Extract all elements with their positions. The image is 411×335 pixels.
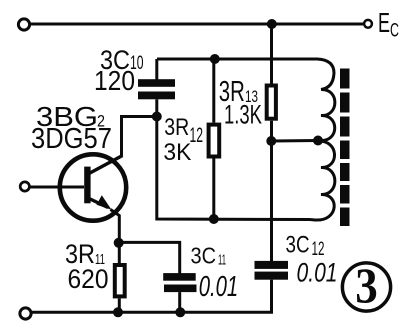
transformer core dash 1 (340, 69, 350, 89)
svg-text:3C: 3C (286, 232, 310, 259)
resistor R12 (209, 59, 220, 219)
svg-text:12: 12 (190, 124, 204, 147)
transistor base bar (84, 167, 90, 204)
wire: base (30, 186, 84, 189)
svg-text:E: E (378, 7, 390, 38)
junction: R11 ground (113, 307, 123, 317)
wire: top rail (31, 23, 364, 26)
transformer core dash 3 (340, 117, 350, 137)
svg-text:11: 11 (218, 252, 226, 269)
resistor R13 (267, 24, 276, 141)
resistor R11 (115, 243, 125, 312)
wire: emitter down (111, 210, 120, 243)
terminal: supply input left (18, 19, 29, 30)
wire: tap node down to C12 (270, 141, 273, 261)
wire: collector node to transistor (122, 117, 157, 157)
junction: C11 ground (175, 307, 185, 317)
junction: rail to R12 (210, 54, 220, 64)
terminal: ground left (20, 308, 31, 319)
svg-text:120: 120 (94, 65, 135, 96)
junction: collector node (152, 112, 162, 122)
capacitor C10 (138, 59, 175, 117)
junction: tap right (313, 136, 323, 146)
svg-text:3K: 3K (163, 139, 191, 166)
junction: emitter node (114, 238, 124, 248)
transformer core dash 4 (340, 141, 350, 160)
svg-text:1.3K: 1.3K (224, 100, 262, 130)
transformer core dash 6 (340, 185, 350, 204)
svg-text:0.01: 0.01 (199, 271, 239, 303)
transistor collector stroke (89, 156, 123, 174)
svg-text:3DG57: 3DG57 (31, 123, 112, 155)
wire: center tap (271, 139, 318, 143)
wire: collector node down to tank bottom (157, 117, 310, 220)
transformer core dash 7 (340, 208, 350, 227)
svg-text:3: 3 (355, 257, 378, 313)
terminal: base input (20, 182, 29, 191)
transistor emitter stroke with arrow (89, 199, 108, 208)
wire: emitter node to C11 (119, 242, 180, 273)
transformer core dash 5 (340, 163, 350, 181)
junction: tap left (266, 136, 276, 146)
transformer core dash 2 (340, 93, 350, 113)
svg-text:3R: 3R (164, 114, 189, 141)
wire: ground rail (31, 311, 273, 314)
junction: top rail to R13 (267, 19, 277, 29)
capacitor C11 (163, 273, 196, 312)
terminal: Ec right (364, 20, 372, 28)
svg-text:0.01: 0.01 (297, 258, 338, 288)
wire: feedback rail (C10 top / R12 top / transformer top) (157, 58, 308, 61)
svg-text:C: C (390, 21, 399, 42)
transformer secondary winding (310, 141, 335, 220)
transistor Q1 circle (60, 154, 126, 220)
svg-text:3C: 3C (191, 243, 217, 269)
transformer primary winding (308, 59, 335, 141)
capacitor C12 (255, 261, 289, 312)
svg-text:620: 620 (68, 264, 109, 294)
figure number circle 3 (342, 263, 390, 311)
junction: R12 bottom (209, 214, 219, 224)
